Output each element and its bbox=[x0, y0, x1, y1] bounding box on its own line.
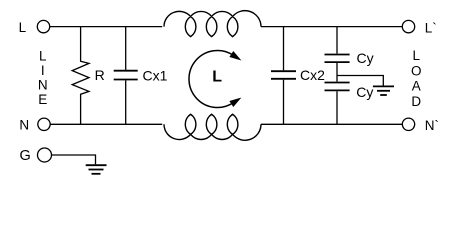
svg-text:Cx2: Cx2 bbox=[300, 67, 325, 83]
svg-text:L: L bbox=[19, 20, 27, 35]
svg-text:A: A bbox=[412, 79, 421, 94]
svg-text:Cy: Cy bbox=[356, 84, 373, 100]
svg-text:N`: N` bbox=[425, 118, 439, 133]
svg-text:L: L bbox=[39, 48, 47, 63]
svg-text:G: G bbox=[20, 148, 31, 164]
svg-text:L`: L` bbox=[425, 21, 437, 36]
svg-text:L: L bbox=[412, 48, 420, 63]
svg-text:Cy: Cy bbox=[357, 50, 374, 66]
svg-text:E: E bbox=[38, 92, 47, 107]
svg-text:R: R bbox=[95, 67, 105, 83]
svg-text:L: L bbox=[212, 69, 222, 86]
svg-text:O: O bbox=[411, 63, 422, 78]
svg-text:I: I bbox=[41, 63, 45, 78]
svg-text:N: N bbox=[19, 118, 29, 133]
svg-text:D: D bbox=[411, 94, 421, 109]
svg-text:N: N bbox=[38, 78, 48, 93]
svg-text:Cx1: Cx1 bbox=[143, 67, 168, 83]
